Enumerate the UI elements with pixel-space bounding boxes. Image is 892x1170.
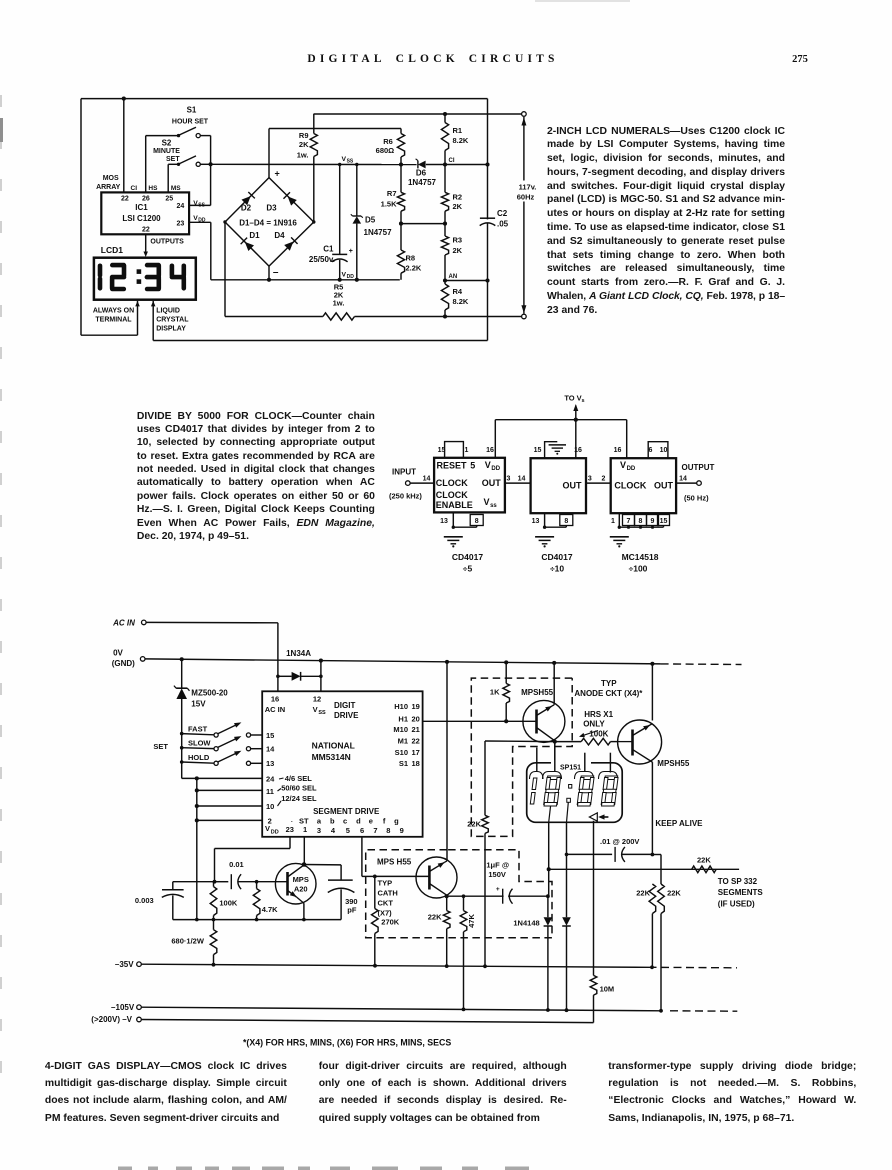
svg-text:SET: SET: [166, 156, 180, 163]
svg-text:+: +: [275, 168, 280, 178]
svg-text:22: 22: [412, 737, 420, 746]
svg-text:CRYSTAL: CRYSTAL: [156, 316, 189, 323]
wire: bridge left vertex down to AC return line: [224, 222, 226, 317]
svg-text:1N4757: 1N4757: [364, 228, 393, 237]
svg-text:47K: 47K: [467, 914, 476, 928]
node: bridge left vertex: [223, 220, 226, 223]
svg-text:D1–D4 = 1N916: D1–D4 = 1N916: [239, 218, 297, 227]
wire: decimal indicator wire down to 10M: [593, 821, 595, 976]
LCD digit 4: [170, 266, 175, 276]
diode D1 on bridge lower-left arm: [245, 242, 254, 251]
svg-text:D6: D6: [416, 168, 427, 177]
svg-text:18: 18: [412, 759, 420, 768]
svg-text:MM5314N: MM5314N: [312, 752, 351, 762]
svg-text:0V: 0V: [113, 648, 123, 657]
resistor 22K cathode load: [443, 911, 450, 929]
svg-text:CLOCK: CLOCK: [614, 480, 646, 490]
LCD digit 2: [112, 263, 124, 268]
resistor R7 1.5K: [400, 165, 402, 193]
wire: Q3 emitter down: [303, 903, 305, 919]
svg-text:(50 Hz): (50 Hz): [684, 494, 709, 503]
wire: U1 OUT pin3 to U2 pin14: [505, 482, 531, 484]
display colon: [569, 785, 572, 789]
svg-text:3: 3: [317, 826, 321, 835]
svg-text:–: –: [273, 267, 279, 278]
display digit 8 minutes-tens: [577, 776, 594, 806]
svg-text:TO SP 332: TO SP 332: [718, 877, 758, 886]
wire: AN line to frame right edge: [445, 280, 488, 282]
svg-text:4/6 SEL: 4/6 SEL: [285, 774, 313, 783]
wire: collector line with 1uF to diode: [447, 895, 548, 897]
svg-text:TYP: TYP: [378, 878, 393, 887]
resistor 22K keep-alive right: [658, 884, 665, 914]
svg-text:b: b: [330, 817, 335, 826]
svg-text:22: 22: [121, 195, 129, 202]
svg-text:MS: MS: [171, 185, 181, 192]
svg-text:÷10: ÷10: [550, 564, 564, 574]
svg-text:LCD1: LCD1: [101, 245, 123, 255]
svg-text:2K: 2K: [299, 140, 309, 149]
svg-text:a: a: [317, 817, 322, 826]
svg-text:ss: ss: [490, 503, 497, 509]
counter U3 MC14518 divide-by-100: [611, 458, 676, 513]
svg-text:V: V: [313, 705, 318, 714]
svg-text:(250 kHz): (250 kHz): [389, 492, 422, 501]
resistor R6 680 ohm: [400, 129, 402, 134]
svg-text:SEGMENTS: SEGMENTS: [718, 888, 764, 897]
wire: AC hot down to 1N34A anode and pin 16: [277, 623, 279, 692]
svg-text:SLOW: SLOW: [188, 739, 211, 748]
wire: HS wire from S1 down to IC1 pin 26: [145, 136, 147, 193]
svg-text:SS: SS: [347, 159, 354, 165]
node: junction of pin22 CI wire with frame top: [122, 97, 126, 101]
svg-text:15: 15: [534, 447, 542, 454]
svg-text:24: 24: [177, 203, 185, 210]
svg-text:MPS: MPS: [293, 875, 309, 884]
svg-text:HS: HS: [148, 185, 158, 192]
svg-text:CD4017: CD4017: [541, 552, 572, 562]
switch S1 HOUR SET: [146, 135, 179, 137]
svg-text:OUT: OUT: [563, 480, 583, 490]
node: digit2 cathode to segment line: [547, 867, 551, 871]
svg-text:1μF @: 1μF @: [486, 861, 509, 870]
node: CI node: [443, 162, 447, 166]
svg-text:4.7K: 4.7K: [262, 905, 278, 914]
svg-text:s: s: [582, 398, 585, 404]
svg-text:16: 16: [614, 447, 622, 454]
svg-text:+: +: [496, 886, 500, 893]
node: 1uF right end at diode: [546, 894, 550, 898]
svg-text:8.2K: 8.2K: [453, 136, 469, 145]
display digit 8 minutes: [601, 776, 618, 806]
dashed box: TYP CATH CKT (X7): [366, 850, 552, 938]
svg-text:14: 14: [679, 475, 687, 482]
svg-text:OUTPUTS: OUTPUTS: [150, 238, 184, 245]
wire: stub to right 22K: [652, 854, 661, 856]
svg-text:R8: R8: [406, 253, 416, 262]
svg-text:SET: SET: [153, 742, 168, 751]
node: 1K tap on 0V rail: [504, 660, 508, 664]
svg-text:100K: 100K: [589, 730, 608, 739]
svg-text:V: V: [484, 497, 490, 507]
svg-text:RESET: RESET: [437, 460, 468, 470]
wire: Q4 emitter up to 0V rail: [446, 662, 448, 861]
svg-text:pF: pF: [347, 905, 357, 914]
IC U4 National MM5314N clock chip: [262, 691, 422, 837]
svg-text:2K: 2K: [453, 202, 463, 211]
svg-text:R9: R9: [299, 131, 309, 140]
svg-text:A20: A20: [294, 885, 308, 894]
svg-text:22K: 22K: [636, 888, 650, 897]
svg-text:0.01: 0.01: [229, 860, 244, 869]
transistor Q4 MPS H55 cathode driver: [416, 857, 457, 898]
svg-text:CI: CI: [449, 158, 455, 164]
svg-text:14: 14: [518, 475, 526, 482]
display digit 8 hours: [544, 776, 561, 806]
wire: VDD drop to U2 pin 16: [575, 420, 577, 459]
svg-text:7: 7: [627, 518, 631, 525]
wire: ALWAYS ON terminal wire: [135, 301, 140, 307]
node: Q1 collector node: [553, 740, 557, 744]
wire: VDD pin 23 to bridge bottom rail: [189, 221, 211, 223]
svg-text:CD4017: CD4017: [452, 552, 483, 562]
svg-text:MPSH55: MPSH55: [521, 688, 554, 697]
resistor 22K keep-alive left: [649, 884, 656, 914]
wire: R7-R8 junction to R2-R3 junction: [401, 223, 445, 225]
svg-text:16: 16: [486, 447, 494, 454]
node: R2/R3 junction: [443, 222, 447, 226]
svg-text:1K: 1K: [490, 687, 500, 696]
svg-text:e: e: [369, 817, 373, 826]
resistor 1K base pulldown: [505, 662, 507, 683]
wire: oscillator bottom line: [173, 919, 341, 921]
wire: colon cathode down from display: [567, 802, 569, 822]
svg-text:22K: 22K: [697, 856, 711, 865]
svg-text:8.2K: 8.2K: [453, 297, 469, 306]
resistor 10M: [593, 974, 595, 976]
wire: pin 2 VDD line: [197, 819, 262, 821]
svg-text:2.2K: 2.2K: [406, 264, 422, 273]
svg-text:DD: DD: [347, 274, 355, 280]
svg-text:MPS H55: MPS H55: [377, 858, 412, 867]
IC1 LSI C1200 MOS array: [101, 192, 189, 234]
svg-text:8: 8: [386, 826, 390, 835]
wire: pin 1 ST wire down to Q3 collector: [303, 837, 305, 865]
node: AN node: [443, 278, 447, 282]
node: anode MPSH55 emitter tap on 0V rail: [552, 661, 556, 665]
svg-text:DISPLAY: DISPLAY: [156, 325, 186, 332]
wire: VSS rail from switches to CI node: [211, 163, 417, 165]
wire: segment bus to 22K resistors: [549, 868, 739, 870]
svg-text:–35V: –35V: [115, 960, 134, 969]
diode D2 on bridge upper-left arm: [241, 196, 250, 205]
display digit 1: [530, 778, 537, 804]
svg-text:S2: S2: [162, 138, 172, 147]
svg-text:LSI C1200: LSI C1200: [122, 214, 161, 223]
wire: outer frame left edge: [80, 99, 82, 336]
switch S2 MINUTE SET: [168, 163, 178, 165]
node: keep-alive MPSH55 emitter tap on 0V rail: [650, 662, 654, 666]
node: R6/R7/VSS junction: [399, 162, 403, 166]
wire: H1 pin 20 drive line to anode circuit: [423, 720, 537, 722]
svg-text:1N4148: 1N4148: [513, 918, 539, 927]
svg-text:.05: .05: [497, 219, 509, 228]
svg-text:CATH: CATH: [378, 888, 398, 897]
svg-text:D4: D4: [274, 231, 285, 240]
svg-text:11: 11: [266, 787, 274, 796]
svg-text:5: 5: [470, 460, 475, 470]
node: 47K tap: [462, 894, 466, 898]
wire: Q1 collector to keep-alive branch: [485, 740, 555, 743]
svg-text:MPSH55: MPSH55: [657, 759, 690, 768]
wire: VDD rail under bridge: [269, 279, 400, 281]
svg-text:.01 @ 200V: .01 @ 200V: [600, 837, 639, 846]
svg-text:3: 3: [588, 475, 592, 482]
svg-text:4: 4: [331, 826, 336, 835]
svg-text:AC IN: AC IN: [265, 705, 285, 714]
node: pin12 VSS tap on 0V rail: [319, 659, 323, 663]
svg-text:KEEP ALIVE: KEEP ALIVE: [655, 819, 703, 828]
svg-text:V: V: [265, 824, 270, 833]
svg-text:D3: D3: [266, 204, 277, 213]
svg-text:CI: CI: [131, 185, 138, 192]
svg-text:23: 23: [177, 220, 185, 227]
wire: U1 pin15-pin1 reset strap: [445, 442, 464, 458]
counter U2 CD4017 divide-by-10: [531, 458, 586, 513]
svg-text:M1: M1: [398, 737, 408, 746]
svg-text:ARRAY: ARRAY: [96, 184, 121, 191]
node: 4.7K tap: [255, 880, 259, 884]
wire: S1 output down to VSS node: [210, 136, 212, 165]
node: MZ500 tap on 0V rail: [180, 657, 184, 661]
svg-text:6: 6: [360, 826, 364, 835]
svg-text:AC IN: AC IN: [112, 618, 135, 627]
svg-text:100K: 100K: [219, 898, 238, 907]
wire: pin 23 bottom wire to 0.01 node: [289, 837, 291, 849]
resistor R9 2K 1w AC dropper: [313, 114, 315, 134]
counter U1 CD4017 divide-by-5: [434, 458, 505, 513]
capacitor 390 pF: [328, 879, 353, 881]
LCD digit 3: [147, 263, 159, 268]
svg-text:S10: S10: [395, 748, 408, 757]
wire: digit 4 anode stub: [609, 753, 611, 773]
svg-text:23: 23: [286, 825, 294, 834]
svg-text:3: 3: [507, 475, 511, 482]
wire: U3 pin6-pin10 strap: [648, 442, 668, 459]
svg-text:680Ω: 680Ω: [376, 146, 395, 155]
svg-text:1: 1: [465, 447, 469, 454]
svg-text:8: 8: [475, 518, 479, 525]
svg-text:g: g: [394, 817, 399, 826]
svg-text:20: 20: [412, 714, 420, 723]
svg-text:–105V: –105V: [111, 1003, 135, 1012]
wire: switch common down to pin 24 line: [181, 762, 183, 778]
svg-text:R6: R6: [383, 137, 393, 146]
svg-text:R2: R2: [453, 193, 463, 202]
wire: VSS pin 24 connection: [210, 164, 212, 205]
svg-text:13: 13: [440, 518, 448, 525]
terminal: 117v top: [522, 112, 527, 117]
svg-text:1.5K: 1.5K: [381, 200, 397, 209]
svg-text:0.003: 0.003: [135, 896, 154, 905]
svg-text:25: 25: [165, 195, 173, 202]
svg-text:MINUTE: MINUTE: [153, 148, 180, 155]
resistor R4 8.2K: [444, 281, 446, 285]
svg-text:TO V: TO V: [564, 393, 581, 402]
wire: 0V VSS rail: [145, 659, 661, 664]
wire: VDD drop to U3 pin 16: [626, 420, 628, 459]
wire: 1N34A cathode up to 0V rail and down to pin 12: [320, 661, 322, 692]
svg-text:D5: D5: [365, 215, 376, 224]
svg-text:12/24 SEL: 12/24 SEL: [281, 794, 317, 803]
svg-text:680·1/2W: 680·1/2W: [171, 937, 204, 946]
wire: outer frame right edge (CI to AN via C2): [487, 99, 489, 341]
svg-text:SEGMENT DRIVE: SEGMENT DRIVE: [313, 807, 380, 816]
label: 117v. 60Hz with span arrows: [523, 117, 525, 181]
resistor R2 2K: [444, 165, 446, 193]
svg-text:IC1: IC1: [135, 203, 148, 212]
node: R1 top junction: [443, 112, 447, 116]
svg-text:C1: C1: [323, 245, 334, 254]
svg-text:275: 275: [792, 54, 808, 65]
svg-text:AN: AN: [449, 274, 458, 280]
zener diode D6 1N4757 on CI line: [418, 161, 426, 169]
svg-text:13: 13: [532, 518, 540, 525]
svg-text:D2: D2: [241, 204, 252, 213]
svg-text:22K: 22K: [428, 912, 442, 921]
LCD colon: [137, 269, 142, 274]
wire: AC IN line: [146, 621, 278, 623]
ground: U2 pin 15 strap: [545, 442, 558, 459]
svg-text:S1: S1: [399, 759, 408, 768]
svg-text:OUT: OUT: [482, 478, 502, 488]
svg-text:10: 10: [266, 802, 274, 811]
svg-text:19: 19: [412, 702, 420, 711]
diode D3 on bridge upper-right arm: [288, 196, 297, 205]
svg-text:2: 2: [602, 475, 606, 482]
svg-text:H10: H10: [394, 702, 408, 711]
svg-text:8: 8: [564, 518, 568, 525]
svg-text:MZ500-20: MZ500-20: [191, 689, 228, 698]
svg-text:1: 1: [303, 825, 307, 834]
svg-text:CLOCK: CLOCK: [436, 478, 468, 488]
svg-text:25/50v.: 25/50v.: [309, 255, 335, 264]
resistor 47K: [460, 911, 467, 932]
svg-text:22: 22: [142, 227, 150, 234]
svg-text:ONLY: ONLY: [583, 720, 605, 729]
svg-text:16: 16: [574, 447, 582, 454]
svg-text:÷5: ÷5: [463, 564, 473, 574]
node: Q4 collector node: [445, 894, 449, 898]
svg-text:CKT: CKT: [378, 898, 394, 907]
svg-text:12: 12: [313, 695, 321, 704]
svg-text:(X7): (X7): [378, 908, 393, 917]
svg-text:DD: DD: [491, 466, 500, 472]
svg-text:C2: C2: [497, 209, 508, 218]
wire: switch common below SLOW: [181, 748, 183, 762]
svg-text:50/60 SEL: 50/60 SEL: [281, 784, 317, 793]
svg-text:6: 6: [649, 447, 653, 454]
wire: U2 OUT pin3 to U3 pin2: [586, 482, 611, 484]
LCD digit 1: [98, 266, 103, 276]
svg-text:ANODE CKT (X4)*: ANODE CKT (X4)*: [574, 689, 643, 698]
wire: Q1 collector down to display digit anode: [554, 742, 556, 763]
wire: bridge top vertex to + rail: [268, 129, 270, 178]
display decimal indicator arrow: [589, 813, 597, 821]
svg-text:FAST: FAST: [188, 724, 208, 733]
node: R7/R8 junction: [399, 222, 403, 226]
wire: digit 3 anode stub: [584, 753, 586, 772]
dashed box: TYP ANODE CKT (X4): [471, 678, 572, 836]
gas display SP151: [527, 763, 623, 823]
svg-text:10: 10: [660, 447, 668, 454]
wire: Q2 collector keep-alive line down: [651, 762, 653, 854]
wire: -35V dashed continuation: [649, 966, 738, 969]
svg-text:2K: 2K: [453, 246, 463, 255]
svg-text:DIGITAL CLOCK CIRCUITS: DIGITAL CLOCK CIRCUITS: [307, 53, 558, 65]
svg-text:117v.: 117v.: [519, 182, 537, 191]
svg-text:1: 1: [611, 518, 615, 525]
svg-text:c: c: [343, 817, 347, 826]
capacitor C1 25/50v electrolytic: [339, 165, 341, 255]
svg-text:8: 8: [639, 518, 643, 525]
svg-text:DD: DD: [271, 829, 279, 835]
svg-text:7: 7: [373, 826, 377, 835]
wire: base line to Q3: [257, 881, 288, 883]
wire: digit2 cathode down from display: [549, 807, 551, 823]
wire: select common vertical: [196, 778, 198, 919]
node: pin23 join: [213, 880, 217, 884]
node: 270K tap on base line: [373, 875, 377, 879]
svg-text:(>200V) –V: (>200V) –V: [91, 1015, 132, 1024]
svg-text:1w.: 1w.: [333, 299, 345, 308]
svg-text:R4: R4: [453, 287, 463, 296]
svg-text:9: 9: [400, 826, 404, 835]
resistor R5 2K 1w in AC return: [225, 316, 323, 318]
svg-text:5: 5: [346, 826, 350, 835]
svg-text:HOLD: HOLD: [188, 753, 210, 762]
svg-text:S1: S1: [187, 106, 197, 115]
zener diode MZ500-20 15V: [181, 659, 183, 688]
diode D4 on bridge lower-right arm: [284, 242, 293, 251]
diode 1N4148 right: [562, 917, 571, 926]
display digit hoods: [530, 772, 544, 780]
wire: pin 11 line: [197, 789, 262, 791]
svg-text:SS: SS: [318, 710, 326, 716]
node: CI line to frame right edge: [485, 162, 489, 166]
svg-text:1N4757: 1N4757: [408, 178, 437, 187]
svg-text:HOUR SET: HOUR SET: [172, 119, 209, 126]
svg-text:(GND): (GND): [112, 659, 135, 668]
wire: LIQUID CRYSTAL DISPLAY backplane wire: [151, 301, 156, 307]
wire: outer frame top (CI net): [81, 98, 488, 100]
svg-text:MOS: MOS: [103, 175, 119, 182]
svg-text:17: 17: [412, 748, 420, 757]
wire: switch common below FAST: [181, 734, 183, 748]
svg-text:H1: H1: [398, 714, 408, 723]
wire: Q1 emitter up to 0V rail: [553, 663, 555, 705]
svg-text:f: f: [383, 817, 386, 826]
resistor R8 2.2K: [400, 224, 402, 250]
resistor 270K: [374, 876, 376, 908]
svg-text:ENABLE: ENABLE: [436, 500, 473, 510]
svg-text:13: 13: [266, 759, 274, 768]
svg-text:D1: D1: [249, 231, 260, 240]
terminal: 117v bottom: [522, 314, 527, 319]
svg-text:TYP: TYP: [601, 679, 617, 688]
svg-text:INPUT: INPUT: [392, 468, 416, 477]
svg-text:DRIVE: DRIVE: [334, 711, 359, 720]
